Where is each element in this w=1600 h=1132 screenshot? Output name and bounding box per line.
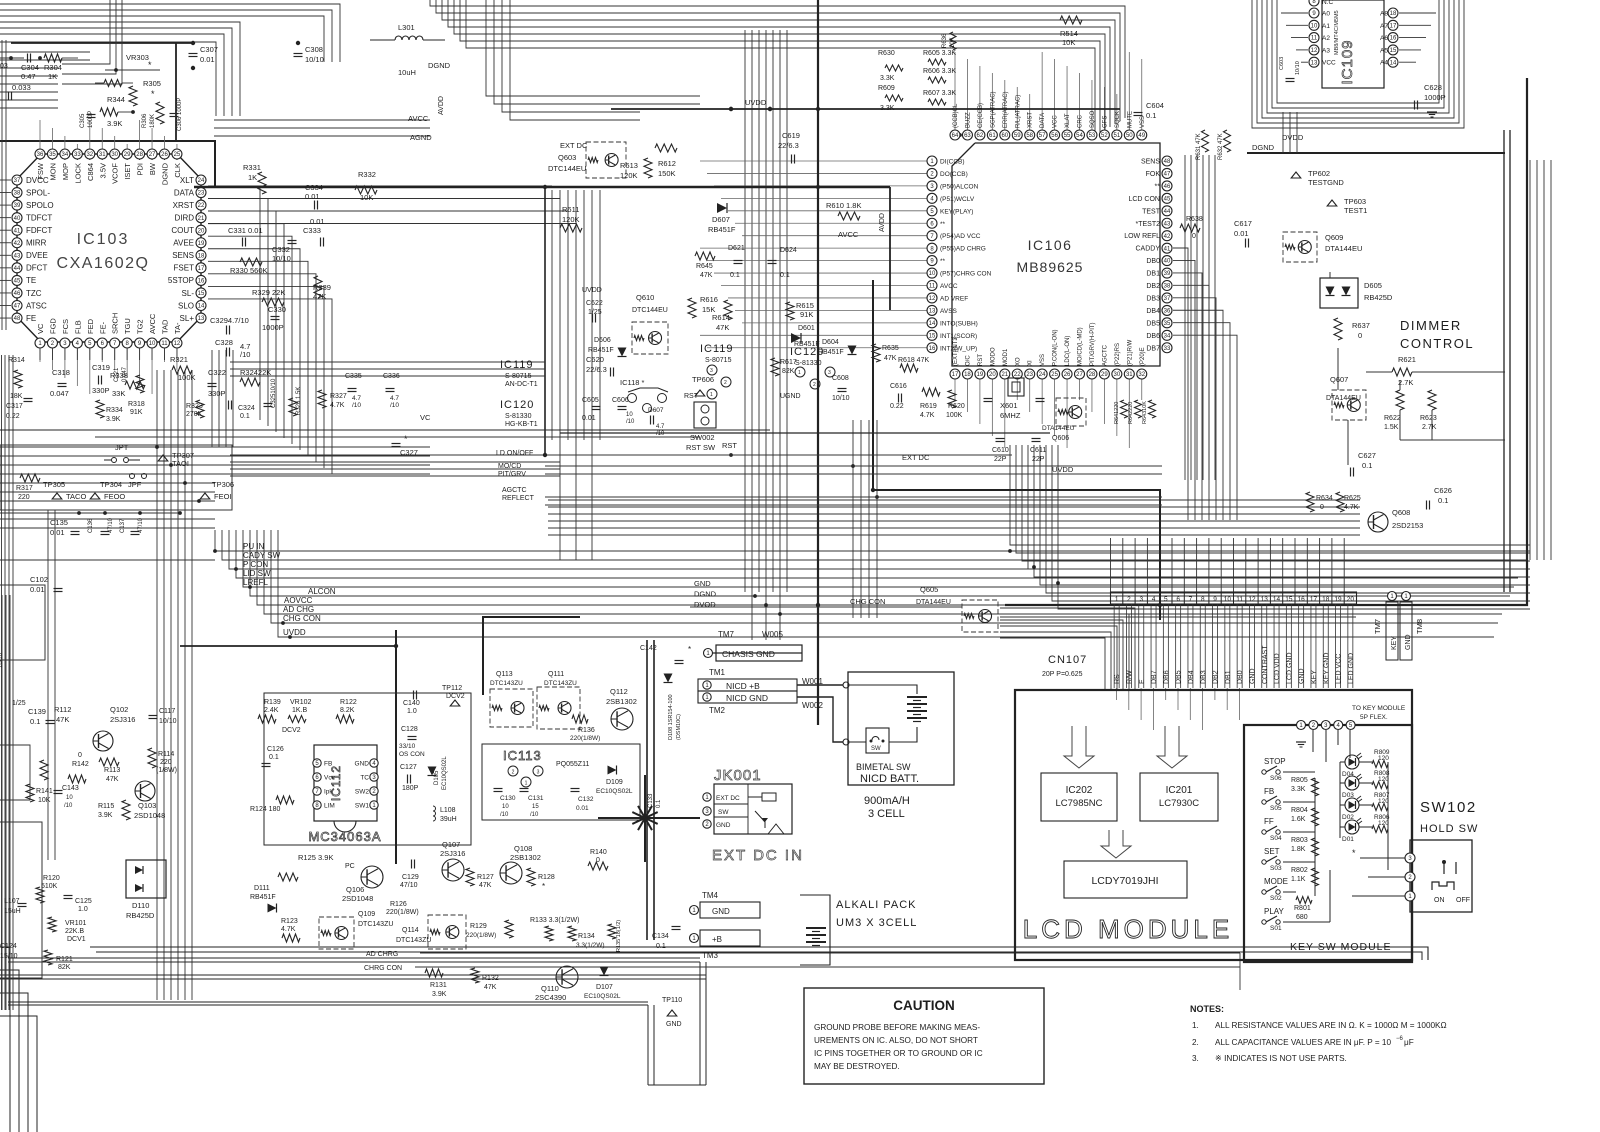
svg-text:2SC4390: 2SC4390 [535, 993, 566, 1002]
svg-text:EC10QS02L: EC10QS02L [596, 788, 633, 795]
svg-text:LCD MODULE: LCD MODULE [1023, 914, 1233, 944]
capacitor C329 C328 C330 resistor R329 [210, 288, 286, 359]
svg-text:FF: FF [1264, 817, 1274, 826]
svg-text:R331: R331 [243, 163, 261, 172]
svg-text:0.1: 0.1 [269, 754, 279, 761]
svg-text:0.01: 0.01 [200, 55, 215, 64]
capacitor C304 / resistor R304 [0, 54, 78, 101]
wire left-edge cut boxes [0, 585, 45, 978]
svg-text:TE: TE [26, 276, 36, 285]
svg-text:CADY SW: CADY SW [243, 551, 281, 560]
capacitor C133 C142 diode D108 [640, 645, 691, 808]
svg-text:EC10QS02L: EC10QS02L [442, 756, 448, 790]
svg-text:14: 14 [1390, 60, 1397, 66]
svg-text:IC119: IC119 [500, 359, 534, 371]
transistor Q603 [548, 141, 626, 178]
svg-text:R625: R625 [1344, 495, 1361, 502]
svg-text:R134: R134 [578, 933, 595, 940]
svg-text:S05: S05 [1270, 805, 1282, 812]
svg-text:D107: D107 [596, 984, 613, 991]
svg-text:R613: R613 [620, 161, 638, 170]
svg-text:C125: C125 [75, 898, 92, 905]
svg-text:CXA1602Q: CXA1602Q [57, 255, 150, 272]
svg-text:SW102: SW102 [1420, 799, 1477, 816]
svg-text:10K: 10K [360, 193, 373, 202]
svg-text:D621: D621 [728, 245, 745, 252]
wire bus bottom rails [0, 947, 1428, 1085]
svg-text:TEST1: TEST1 [1344, 206, 1367, 215]
svg-text:DTA144EU: DTA144EU [1325, 244, 1362, 253]
svg-text:2.7K: 2.7K [1422, 424, 1437, 431]
svg-text:DB4: DB4 [1146, 308, 1160, 315]
svg-text:JK001: JK001 [714, 767, 762, 784]
svg-text:150K: 150K [658, 169, 676, 178]
svg-text:2SB1302: 2SB1302 [606, 697, 637, 706]
svg-text:6: 6 [1176, 596, 1180, 603]
svg-text:R607 3.3K: R607 3.3K [923, 90, 956, 97]
svg-text:AD CHG: AD CHG [283, 605, 314, 614]
svg-text:DTC143ZU: DTC143ZU [396, 937, 431, 944]
svg-text:1.5K: 1.5K [1384, 424, 1399, 431]
svg-text:91K: 91K [130, 409, 143, 416]
svg-text:0: 0 [1192, 233, 1196, 240]
crystal X601 capacitors C610 C611 [984, 378, 1047, 463]
svg-text:TAOI: TAOI [172, 459, 189, 468]
svg-text:43: 43 [1164, 221, 1171, 227]
svg-text:※ INDICATES IS NOT USE PARTS.: ※ INDICATES IS NOT USE PARTS. [1215, 1054, 1347, 1063]
svg-text:C143: C143 [62, 785, 79, 792]
svg-text:10/10: 10/10 [305, 55, 324, 64]
svg-text:A2: A2 [1322, 35, 1330, 42]
svg-text:18: 18 [1322, 596, 1330, 603]
svg-text:TP306: TP306 [212, 480, 234, 489]
svg-text:3.5V: 3.5V [98, 163, 107, 178]
svg-text:FLB: FLB [73, 320, 82, 334]
svg-text:10: 10 [626, 412, 633, 418]
svg-text:1000P: 1000P [88, 111, 94, 128]
svg-text:MAY BE DESTROYED.: MAY BE DESTROYED. [814, 1062, 900, 1071]
svg-text:3: 3 [1139, 596, 1143, 603]
svg-text:22: 22 [198, 203, 205, 209]
svg-text:R609: R609 [878, 85, 895, 92]
svg-text:180P: 180P [402, 785, 419, 792]
regulator IC119 pins [707, 365, 731, 399]
microcontroller IC106 body MB89625 [952, 143, 1160, 366]
svg-text:DVDD: DVDD [1282, 133, 1304, 142]
svg-text:R605 3.3K: R605 3.3K [923, 50, 956, 57]
svg-text:/10: /10 [352, 402, 361, 409]
svg-text:W002: W002 [802, 701, 823, 710]
svg-text:Q608: Q608 [1392, 508, 1410, 517]
capacitor C604 UVDD [729, 98, 1164, 120]
svg-text:MODO: MODO [990, 347, 996, 366]
svg-text:RB451F: RB451F [708, 225, 736, 234]
svg-text:C126: C126 [267, 746, 284, 753]
svg-text:330P: 330P [92, 386, 110, 395]
svg-text:R326 1.5K: R326 1.5K [296, 387, 302, 415]
regulator IC119 IC120 labels right [700, 343, 824, 367]
svg-text:FCS: FCS [61, 319, 70, 334]
svg-text:TM4: TM4 [702, 891, 719, 900]
svg-text:1K.B: 1K.B [292, 707, 308, 714]
svg-text:33/10: 33/10 [399, 743, 416, 750]
svg-text:R126: R126 [390, 901, 407, 908]
svg-text:C135: C135 [50, 518, 68, 527]
svg-text:0.1: 0.1 [656, 943, 666, 950]
svg-text:Q610: Q610 [636, 293, 654, 302]
svg-text:INTO(SUBH): INTO(SUBH) [940, 320, 978, 327]
svg-text:AOVCC: AOVCC [284, 596, 313, 605]
svg-text:GND: GND [712, 907, 730, 916]
svg-text:PLAY: PLAY [1264, 907, 1285, 916]
svg-text:1.8K: 1.8K [1291, 846, 1306, 853]
svg-text:AVEE: AVEE [173, 239, 194, 248]
svg-text:6MHZ: 6MHZ [1000, 411, 1021, 420]
svg-text:(DSM10C): (DSM10C) [676, 714, 682, 740]
svg-text:53: 53 [1089, 133, 1096, 139]
svg-text:A4: A4 [1380, 60, 1388, 67]
svg-text:DTA144EU: DTA144EU [1326, 395, 1361, 402]
svg-text:ALKALI PACK: ALKALI PACK [836, 899, 917, 911]
svg-text:TO KEY MODULE: TO KEY MODULE [1352, 705, 1406, 712]
svg-text:10: 10 [149, 341, 156, 347]
svg-text:37: 37 [14, 178, 21, 184]
svg-text:/10: /10 [64, 803, 73, 809]
svg-text:13: 13 [198, 316, 205, 322]
svg-text:R131: R131 [430, 982, 447, 989]
svg-text:C140: C140 [403, 700, 420, 707]
svg-text:1/25: 1/25 [588, 309, 602, 316]
svg-text:*: * [1352, 848, 1356, 858]
IC112 pins [313, 759, 378, 810]
svg-text:1000P: 1000P [262, 323, 284, 332]
svg-text:R139: R139 [264, 699, 281, 706]
svg-text:D108 1SR154-100: D108 1SR154-100 [668, 694, 674, 740]
svg-text:39uH: 39uH [440, 816, 457, 823]
svg-text:11: 11 [1311, 36, 1318, 42]
svg-text:270K: 270K [186, 411, 203, 418]
svg-text:47K: 47K [716, 323, 729, 332]
svg-text:Q103: Q103 [138, 801, 156, 810]
wire bus IC103 bottom stubs [40, 348, 177, 394]
wire AD CHRG CHRG CON runs [415, 953, 1240, 990]
svg-text:RB451F: RB451F [588, 347, 614, 354]
svg-text:C328: C328 [215, 338, 233, 347]
capacitor C135 C136 C137 [50, 517, 144, 537]
svg-text:D01: D01 [1342, 836, 1354, 843]
svg-text:E: E [1139, 679, 1146, 684]
svg-text:2: 2 [512, 770, 515, 776]
svg-text:R637: R637 [1352, 321, 1370, 330]
svg-text:19: 19 [977, 372, 984, 378]
svg-text:0.1: 0.1 [30, 717, 40, 726]
svg-text:C603: C603 [1279, 57, 1285, 70]
svg-text:Q110: Q110 [541, 984, 559, 993]
svg-text:C334: C334 [305, 183, 323, 192]
svg-text:EXT DC: EXT DC [716, 795, 740, 802]
transistor Q609 [1283, 232, 1362, 262]
svg-text:59: 59 [1014, 133, 1021, 139]
svg-text:0.01: 0.01 [305, 192, 320, 201]
wire bus bottom-left nest [0, 947, 37, 1132]
svg-text:R636: R636 [942, 33, 948, 48]
svg-text:D109: D109 [606, 779, 623, 786]
svg-text:R623: R623 [1420, 415, 1437, 422]
resistor R641 R642 R643 [1114, 400, 1156, 424]
svg-text:91K: 91K [800, 310, 813, 319]
svg-text:DB4: DB4 [1188, 670, 1195, 684]
svg-text:*: * [151, 89, 155, 99]
svg-text:1.6K: 1.6K [1291, 816, 1306, 823]
svg-text:16: 16 [929, 346, 936, 352]
svg-text:R135 18(1/2): R135 18(1/2) [616, 920, 622, 952]
svg-text:48: 48 [1164, 159, 1171, 165]
svg-text:SW: SW [871, 746, 881, 752]
svg-text:29: 29 [1101, 372, 1108, 378]
svg-text:15uH: 15uH [4, 908, 21, 915]
svg-text:22/6.3: 22/6.3 [586, 365, 607, 374]
capacitor C140 C128 C127 diode D105 inductor L108 [399, 691, 457, 824]
svg-text:S02: S02 [1270, 895, 1282, 902]
svg-text:7: 7 [1189, 596, 1193, 603]
svg-text:DB3: DB3 [1200, 670, 1207, 684]
svg-text:D105: D105 [434, 770, 440, 785]
svg-text:JPF: JPF [128, 480, 142, 489]
svg-text:Q113: Q113 [496, 671, 513, 678]
resistor R112 R142 R141 capacitor C143 [26, 705, 89, 809]
svg-text:D624: D624 [780, 247, 797, 254]
svg-text:R305: R305 [143, 79, 161, 88]
svg-text:LED VCC: LED VCC [1336, 654, 1343, 684]
svg-text:AD CHRG: AD CHRG [366, 951, 398, 958]
svg-text:VR101: VR101 [65, 920, 87, 927]
display LCD MODULE IC202 IC201 LCDY7019JHI [1015, 690, 1412, 960]
svg-text:TC: TC [360, 775, 369, 782]
svg-text:34: 34 [1164, 333, 1171, 339]
svg-text:CHRG CON: CHRG CON [364, 965, 402, 972]
svg-text:C331 0.01: C331 0.01 [228, 226, 263, 235]
svg-text:RST SW: RST SW [686, 443, 716, 452]
svg-text:IC119: IC119 [700, 343, 734, 355]
svg-text:R64310K: R64310K [1142, 401, 1148, 424]
svg-text:63: 63 [964, 133, 971, 139]
svg-text:R619: R619 [920, 403, 937, 410]
svg-text:R304: R304 [44, 63, 62, 72]
svg-text:FED: FED [86, 318, 95, 334]
svg-text:47K: 47K [884, 355, 897, 362]
svg-text:C137: C137 [120, 518, 126, 533]
resistor R616 R614 R615 diode D601 [688, 295, 820, 348]
label DIMMER CONTROL [1400, 318, 1474, 351]
svg-text:10K: 10K [950, 37, 956, 48]
terminal TM4 TM3 capacitor C134 [652, 891, 760, 960]
svg-text:34: 34 [62, 152, 69, 158]
svg-text:19: 19 [1334, 596, 1342, 603]
svg-text:KEY: KEY [1311, 670, 1318, 684]
svg-text:1.0: 1.0 [78, 906, 88, 913]
svg-text:27: 27 [1076, 372, 1083, 378]
svg-text:LDC(L-ON): LDC(L-ON) [1065, 336, 1071, 366]
svg-text:ON: ON [1434, 897, 1445, 904]
svg-text:C3294.7/10: C3294.7/10 [210, 316, 249, 325]
wire thick rail under CN107 [1000, 605, 1356, 617]
svg-text:33: 33 [1164, 346, 1171, 352]
svg-text:10/10: 10/10 [1295, 61, 1301, 75]
wire battery W001 W002 [710, 653, 849, 745]
svg-text:SENS: SENS [172, 251, 194, 260]
svg-text:SW1: SW1 [355, 803, 369, 810]
svg-text:15/10: 15/10 [0, 953, 18, 960]
svg-text:17: 17 [952, 372, 959, 378]
svg-text:0: 0 [78, 752, 82, 759]
svg-text:MO/CD: MO/CD [498, 463, 521, 470]
svg-text:47K: 47K [700, 272, 713, 279]
svg-text:DI(CCB): DI(CCB) [940, 159, 965, 166]
svg-text:C131: C131 [528, 795, 544, 802]
svg-text:IC103: IC103 [77, 231, 130, 248]
svg-text:A8: A8 [1380, 11, 1388, 18]
wire bus left edge verticals [2, 40, 14, 1010]
svg-text:220: 220 [160, 759, 172, 766]
svg-text:S04: S04 [1270, 835, 1282, 842]
svg-text:0.1: 0.1 [1146, 111, 1156, 120]
svg-text:(P20)E: (P20)E [1140, 347, 1146, 366]
svg-text:TDFCT: TDFCT [26, 213, 52, 222]
resistor cluster R338 R321 R323 R324 R326 R327 caps [110, 355, 347, 420]
svg-text:AN-DC-T1: AN-DC-T1 [505, 381, 538, 388]
svg-text:29: 29 [124, 152, 131, 158]
transistors Q106 Q107 Q108 resistors R125 R127 R128 R140 C129 [278, 840, 608, 916]
svg-text:AVSS: AVSS [940, 308, 958, 315]
svg-text:4.7K: 4.7K [281, 926, 296, 933]
svg-text:FSET: FSET [174, 264, 195, 273]
svg-text:9: 9 [1213, 596, 1217, 603]
svg-text:R334: R334 [106, 407, 123, 414]
svg-text:CONTROL: CONTROL [1400, 336, 1474, 351]
svg-text:82K: 82K [58, 964, 71, 971]
svg-text:BUZZ: BUZZ [965, 112, 971, 128]
svg-text:ALL CAPACITANCE VALUES ARE IN: ALL CAPACITANCE VALUES ARE IN μF. P = 10 [1215, 1038, 1391, 1047]
svg-text:R614: R614 [712, 313, 730, 322]
svg-text:PQ055Z11: PQ055Z11 [556, 761, 589, 768]
resistors R805 R804 R803 R802 R801 [1291, 777, 1319, 921]
regulator IC119 IC120 labels left [500, 359, 538, 428]
svg-text:26: 26 [161, 152, 168, 158]
svg-text:14: 14 [198, 304, 205, 310]
svg-text:XLAT: XLAT [1065, 113, 1071, 128]
svg-text:TG2: TG2 [136, 319, 145, 334]
svg-text:(P50)ALCON: (P50)ALCON [940, 183, 979, 190]
svg-text:27: 27 [149, 152, 156, 158]
svg-text:R329 22K: R329 22K [252, 288, 285, 297]
transistor Q607 resistors R621 R622 R623 [1326, 272, 1505, 465]
svg-text:R321: R321 [170, 355, 188, 364]
svg-text:22: 22 [1014, 372, 1021, 378]
svg-text:LCD VDD: LCD VDD [1274, 653, 1281, 684]
svg-text:2.: 2. [1192, 1038, 1199, 1047]
svg-text:12: 12 [174, 341, 181, 347]
svg-text:R635: R635 [882, 345, 899, 352]
svg-text:R323: R323 [186, 403, 203, 410]
svg-text:2SJ316: 2SJ316 [440, 849, 465, 858]
resistor R610 [826, 201, 861, 220]
svg-text:SPOL-: SPOL- [26, 188, 50, 197]
capacitor C622 diode D606 transistor Q610 [582, 287, 668, 357]
resistor R637 [1334, 318, 1370, 340]
svg-text:TESTGND: TESTGND [1308, 178, 1344, 187]
svg-text:UVDD: UVDD [582, 287, 602, 294]
svg-text:22/6.3: 22/6.3 [778, 141, 799, 150]
svg-text:DTC143ZU: DTC143ZU [544, 680, 577, 687]
svg-text:28: 28 [136, 152, 143, 158]
diode D604 resistor R635 R618 [818, 339, 929, 372]
wire SW102 to key module [1352, 858, 1405, 896]
svg-text:1/25: 1/25 [12, 700, 26, 707]
svg-text:2: 2 [813, 382, 816, 388]
svg-text:Vcc: Vcc [324, 775, 336, 782]
node labels AVCC AGND AVDD [408, 96, 886, 239]
svg-text:C605: C605 [582, 397, 599, 404]
svg-text:C606: C606 [612, 397, 629, 404]
svg-text:GND: GND [1405, 634, 1412, 650]
svg-text:S-81330: S-81330 [795, 360, 822, 367]
svg-text:31: 31 [99, 152, 106, 158]
svg-text:57: 57 [1039, 133, 1046, 139]
svg-text:C322: C322 [208, 368, 226, 377]
svg-text:CADDY: CADDY [1135, 246, 1160, 253]
svg-text:VR102: VR102 [290, 699, 312, 706]
svg-text:10: 10 [929, 271, 936, 277]
svg-text:41: 41 [1164, 246, 1171, 252]
capacitor C307 C308 [189, 41, 324, 70]
svg-text:R339: R339 [313, 283, 331, 292]
svg-text:R112: R112 [54, 705, 71, 714]
svg-text:W001: W001 [802, 677, 823, 686]
svg-text:TP602: TP602 [1308, 169, 1330, 178]
svg-text:RB451F: RB451F [250, 894, 276, 901]
svg-text:220(1/8W): 220(1/8W) [570, 735, 600, 742]
svg-text:R133 3.3(1/2W): R133 3.3(1/2W) [530, 917, 579, 924]
battery ALKALI PACK [800, 895, 917, 965]
svg-text:IC106: IC106 [1028, 237, 1073, 253]
svg-text:32: 32 [86, 152, 93, 158]
svg-text:C324: C324 [238, 405, 255, 412]
svg-text:0.1: 0.1 [780, 272, 790, 279]
svg-text:3.3(1/2W): 3.3(1/2W) [576, 942, 605, 949]
svg-text:C332: C332 [272, 245, 290, 254]
svg-text:DVEE: DVEE [26, 251, 48, 260]
svg-text:GND: GND [355, 761, 370, 768]
svg-text:43: 43 [14, 253, 21, 259]
svg-text:NICD +B: NICD +B [726, 681, 760, 691]
svg-text:58: 58 [1026, 133, 1033, 139]
svg-text:R129: R129 [470, 923, 487, 930]
svg-text:10/10: 10/10 [832, 395, 850, 402]
svg-text:45: 45 [1164, 196, 1171, 202]
svg-text:LED GND: LED GND [1348, 653, 1355, 684]
svg-text:47/10: 47/10 [108, 517, 114, 533]
svg-text:SW2: SW2 [355, 789, 369, 796]
svg-text:AVCC: AVCC [940, 283, 958, 290]
svg-text:Q108: Q108 [514, 844, 532, 853]
wire bus CN107 feeders [548, 420, 1530, 618]
svg-text:11: 11 [161, 341, 168, 347]
svg-text:R330 560K: R330 560K [230, 266, 268, 275]
svg-text:*: * [688, 645, 691, 654]
svg-text:12: 12 [1311, 48, 1318, 54]
svg-text:AVCC: AVCC [408, 114, 429, 123]
svg-text:10uH: 10uH [398, 68, 416, 77]
